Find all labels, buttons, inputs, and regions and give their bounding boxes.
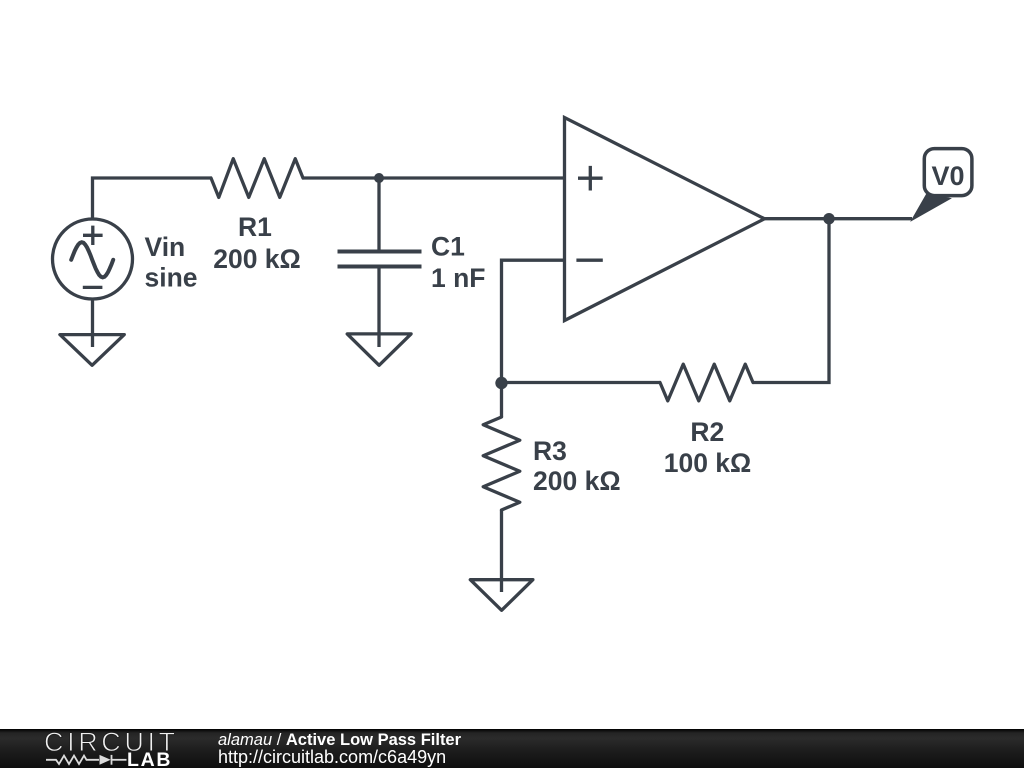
ground under C1 (347, 334, 411, 365)
capacitor C1 plates (338, 252, 422, 267)
voltage source minus mark (83, 286, 103, 289)
node junction dot feedback (495, 377, 507, 389)
wire source top to R1 (93, 178, 212, 220)
resistor R3 (483, 417, 520, 510)
svg-text:R1: R1 (238, 212, 272, 242)
wire R2 to output corner (753, 219, 829, 383)
svg-text:C1: C1 (431, 232, 465, 262)
capacitor C1 bottom lead wire (377, 268, 380, 347)
svg-text:R2: R2 (690, 417, 724, 447)
resistor R2 (660, 364, 753, 401)
wire source bottom to ground (91, 299, 94, 347)
net flag V0 tail (912, 194, 951, 221)
resistor R1 (211, 159, 303, 198)
voltage source sine symbol (71, 242, 113, 277)
svg-text:200 kΩ: 200 kΩ (213, 244, 301, 274)
node junction dot output (823, 213, 834, 224)
svg-text:sine: sine (145, 263, 198, 293)
net flag V0 box (924, 149, 972, 196)
resistor R3 top lead (500, 383, 503, 417)
resistor R3 bottom lead (500, 510, 503, 592)
voltage source V1 circle (53, 219, 133, 299)
wire op-amp minus input to feedback node (502, 260, 565, 383)
op-amp plus input mark (578, 166, 603, 191)
svg-text:http://circuitlab.com/c6a49yn: http://circuitlab.com/c6a49yn (218, 747, 446, 767)
ground under source (60, 335, 124, 366)
svg-text:V0: V0 (931, 161, 964, 191)
ground under R3 (470, 580, 533, 611)
svg-text:R3: R3 (533, 436, 567, 466)
op-amp U1 triangle (565, 118, 765, 321)
svg-text:Vin: Vin (145, 232, 186, 262)
footer bar (0, 729, 1024, 768)
logo resistor-diode glyph (46, 755, 127, 765)
capacitor C1 top lead wire (377, 178, 380, 251)
node junction dot at R1/C1 (374, 173, 384, 183)
svg-text:100 kΩ: 100 kΩ (664, 448, 752, 478)
wire feedback node to R2 (502, 381, 661, 384)
svg-text:200 kΩ: 200 kΩ (533, 466, 621, 496)
voltage source plus mark (83, 226, 103, 245)
wire op-amp output to V0 (765, 217, 913, 220)
op-amp minus input mark (576, 259, 602, 262)
svg-text:LAB: LAB (127, 749, 172, 768)
wire R1 to op-amp + input (303, 176, 564, 179)
svg-text:1 nF: 1 nF (431, 263, 485, 293)
